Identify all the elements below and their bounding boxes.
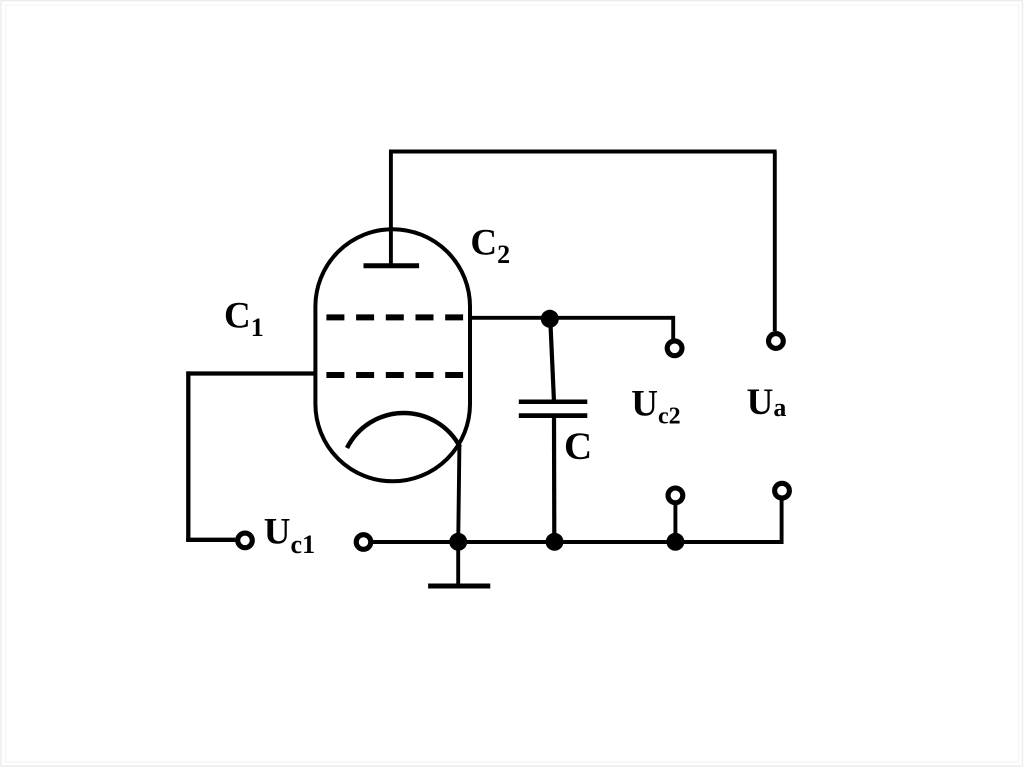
terminal Ua top [769, 334, 784, 349]
grid 2 (screen grid, dashed) [326, 314, 463, 320]
grid 1 (control grid, dashed) [326, 372, 463, 378]
wire: node to capacitor top [550, 322, 554, 402]
wire: Uc2 bottom terminal riser [673, 505, 677, 542]
terminal Uc2 top [667, 341, 682, 356]
svg-text:C: C [564, 425, 592, 468]
terminal Uc1 [238, 533, 253, 548]
wire: to Uc1 terminal [186, 538, 235, 542]
wire: grid2 to Uc2 terminal [468, 316, 673, 320]
wire: grid1 out left [187, 371, 314, 375]
wire: Ua bottom terminal riser [780, 501, 784, 545]
node: Uc2 bottom junction [666, 533, 684, 551]
wire: capacitor bottom to ground bus [552, 416, 556, 542]
wire: top bus from anode to Ua [389, 150, 777, 154]
anode plate [364, 263, 420, 268]
wire: anode lead [389, 150, 393, 264]
tube envelope [315, 229, 470, 481]
capacitor C top plate [519, 399, 588, 404]
capacitor C bottom plate [519, 413, 588, 418]
wire: corner down to Uc2 terminal [671, 316, 675, 339]
node: grid2/C junction [541, 310, 559, 328]
wire: bottom ground bus [372, 540, 782, 544]
wire: Ua top lead [773, 152, 777, 332]
ground bar [428, 584, 490, 589]
terminal Uc2 bottom [668, 488, 683, 503]
wire: left drop [186, 371, 190, 541]
node: cathode/ground junction [449, 533, 467, 551]
wire: cathode lead [458, 446, 459, 542]
cathode [347, 413, 460, 448]
wire: ground stub [456, 542, 460, 584]
terminal (cathode open) [356, 535, 371, 550]
terminal Ua bottom [775, 483, 790, 498]
node: C bottom junction [546, 533, 564, 551]
